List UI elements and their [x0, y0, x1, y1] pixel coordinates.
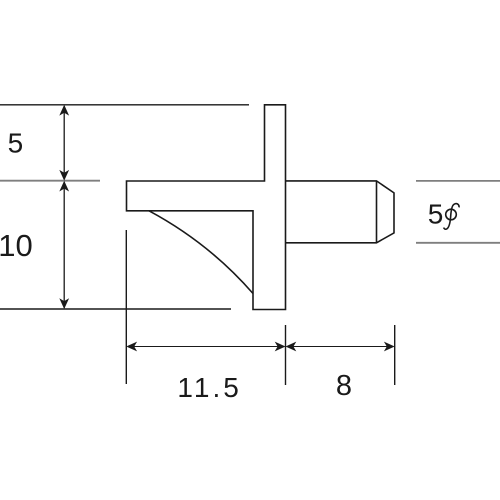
extension line pin top gray — [416, 180, 500, 182]
extension line 11.5 left — [125, 230, 127, 384]
svg-text:5: 5 — [8, 128, 24, 159]
svg-text:8: 8 — [336, 370, 352, 402]
pin (cylindrical stud) outline — [286, 181, 395, 243]
svg-text:10: 10 — [0, 228, 33, 263]
extension line 8 right — [394, 325, 396, 385]
dimension line 11.5 (horizontal double arrow) — [126, 342, 285, 352]
extension line middle gray (arm top reference) — [0, 180, 100, 182]
dimension line 8 (horizontal double arrow) — [286, 342, 395, 352]
dimension line 10 (vertical double arrow) — [59, 181, 69, 309]
phi symbol — [444, 204, 459, 230]
gusset curve under arm — [149, 211, 253, 294]
svg-text:5: 5 — [428, 198, 444, 229]
shelf pin body outline (plate + arm) — [127, 105, 286, 310]
pin chamfer edge — [376, 181, 378, 243]
dimension line 5 (vertical double arrow) — [59, 105, 69, 181]
extension line top (shelf-pin top reference) — [0, 104, 249, 106]
extension line pin bottom gray — [416, 242, 500, 244]
svg-text:11.5: 11.5 — [177, 372, 241, 403]
extension line 11.5/8 middle — [285, 325, 287, 385]
extension line bottom (plate bottom reference) — [0, 308, 231, 310]
